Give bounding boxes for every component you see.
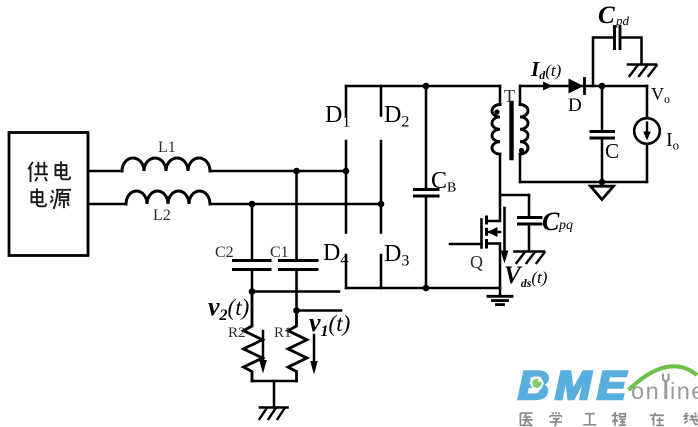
resistor R1 — [288, 311, 307, 382]
logo hexagon nut — [530, 377, 543, 389]
char 供 — [28, 162, 48, 182]
logo char 在 — [650, 413, 664, 426]
transformer secondary lead bottom — [519, 155, 522, 183]
node A dot — [249, 288, 256, 295]
svg-text:L2: L2 — [153, 207, 171, 224]
transformer secondary winding — [520, 105, 528, 155]
logo BME — [518, 362, 632, 407]
wire box to L1 — [88, 170, 122, 173]
char 电 (row2) — [31, 188, 46, 206]
inductor L1 — [122, 158, 210, 171]
Vds arrow — [501, 208, 509, 264]
node A wire — [252, 290, 339, 293]
chassis ground R — [260, 408, 288, 420]
label L1 — [158, 139, 176, 156]
node dot wire2/leg — [378, 201, 385, 208]
svg-text:Q: Q — [470, 252, 483, 272]
logo char 医 — [520, 413, 532, 425]
svg-text:C: C — [605, 139, 619, 163]
label Q — [470, 252, 483, 272]
label D2 — [384, 102, 409, 131]
mosfet drain node branch — [500, 194, 529, 197]
output bottom wire — [520, 181, 647, 184]
label Io — [666, 129, 679, 153]
node dot wire1/leg — [343, 168, 350, 175]
node dot diode output — [599, 83, 606, 90]
svg-text:ine: ine — [670, 378, 698, 404]
capacitor C2 plates — [234, 261, 271, 270]
svg-text:pq: pq — [558, 218, 573, 233]
svg-text:L1: L1 — [158, 139, 176, 156]
chassis ground Cpd — [628, 65, 657, 77]
label D — [568, 95, 582, 116]
label v1(t) — [309, 308, 350, 340]
capacitor Cpd plates — [615, 27, 621, 49]
mosfet body arrow — [487, 227, 501, 237]
capacitor CB branch — [425, 86, 428, 288]
capacitor Cpq branch — [528, 195, 531, 251]
bridge right leg (D2/D3 branch) — [380, 86, 383, 288]
earth ground under mosfet — [488, 288, 512, 305]
svg-text:C2: C2 — [215, 244, 234, 261]
svg-text:T: T — [504, 86, 515, 106]
label CB — [431, 168, 456, 196]
node B wire — [297, 309, 342, 312]
capacitor CB plates — [415, 190, 439, 197]
transformer core — [509, 103, 513, 158]
ground stub R — [273, 381, 276, 408]
node dot wire2/C2 — [249, 201, 256, 208]
svg-text:Id(t): Id(t) — [530, 57, 562, 82]
label v2(t) — [208, 292, 249, 324]
logo swoosh — [629, 366, 698, 390]
label C1 — [270, 244, 289, 261]
node dot CB top — [423, 83, 430, 90]
bridge left leg (D1/D4 branch) — [345, 86, 348, 288]
logo online text — [631, 378, 698, 404]
logo char 学 — [550, 412, 562, 426]
resistor R2 — [244, 292, 263, 382]
label T — [504, 86, 515, 106]
logo char 线 — [684, 413, 698, 425]
bridge top rail — [346, 85, 500, 88]
capacitor C1 branch — [295, 171, 298, 311]
current source Io circle — [634, 118, 660, 144]
chassis ground Cpq — [515, 252, 545, 264]
output top wire — [520, 85, 647, 88]
node B dot — [293, 307, 300, 314]
label R2 — [228, 325, 246, 341]
transformer primary polarity dot — [494, 109, 499, 114]
mosfet source lead — [487, 244, 501, 289]
logo wrench (l) — [663, 374, 669, 400]
node dot output ground — [599, 179, 605, 185]
capacitor C1 plates — [280, 261, 318, 270]
label Id(t) — [530, 57, 562, 82]
transformer primary lead top — [499, 86, 502, 105]
svg-text:CB: CB — [431, 168, 456, 196]
svg-text:R2: R2 — [228, 325, 246, 341]
label Vds(t) — [504, 262, 548, 290]
svg-text:D: D — [568, 95, 582, 116]
label R1 — [274, 325, 292, 341]
label L2 — [153, 207, 171, 224]
label D3 — [384, 241, 409, 270]
mosfet gate bar — [480, 220, 483, 248]
v1 arrow — [310, 335, 318, 375]
svg-text:Vo: Vo — [651, 84, 670, 106]
node dot CB bottom — [423, 285, 430, 292]
transformer primary winding — [492, 105, 500, 155]
wire L2 to bridge — [210, 203, 381, 206]
svg-text:pd: pd — [615, 13, 630, 28]
svg-text:D3: D3 — [384, 241, 409, 270]
svg-text:on: on — [631, 378, 660, 404]
svg-text:C: C — [542, 207, 560, 236]
transformer secondary lead top — [519, 86, 522, 105]
node dot wire1/C1 — [293, 168, 300, 175]
inductor L2 — [126, 191, 210, 204]
label D4 — [323, 240, 348, 269]
svg-text:D4: D4 — [323, 240, 348, 269]
resistor bottom wire — [252, 380, 297, 383]
svg-text:C1: C1 — [270, 244, 289, 261]
label C2 — [215, 244, 234, 261]
v2 arrow — [259, 331, 267, 374]
ground triangle output — [591, 186, 614, 199]
mosfet drain line — [487, 155, 501, 222]
current source Io arrow — [643, 123, 651, 141]
diode D — [569, 79, 585, 94]
svg-text:Vds(t): Vds(t) — [504, 262, 548, 290]
svg-text:C: C — [598, 2, 615, 29]
wire L1 to bridge — [210, 170, 346, 173]
label C — [605, 139, 619, 163]
wire box to L2 — [88, 203, 126, 206]
capacitor C plates — [591, 132, 614, 139]
Id current arrow — [543, 82, 553, 91]
svg-text:Io: Io — [666, 129, 679, 153]
capacitor C2 branch — [251, 204, 254, 292]
char 源 — [50, 190, 71, 209]
svg-text:R1: R1 — [274, 325, 292, 341]
capacitor Cpd branch — [593, 38, 642, 87]
logo char 程 — [612, 412, 627, 425]
supply box 供电电源 — [9, 133, 88, 256]
mosfet channel — [485, 216, 488, 249]
bridge bottom rail — [346, 287, 500, 290]
transformer secondary polarity dot — [519, 148, 524, 153]
char 电 (row1) — [55, 161, 70, 179]
label Vo — [651, 84, 670, 106]
capacitor C branch — [601, 86, 604, 182]
svg-text:D2: D2 — [384, 102, 409, 131]
capacitor Cpq plates — [519, 218, 542, 225]
label Cpq — [542, 207, 573, 236]
svg-text:v2(t): v2(t) — [208, 292, 249, 324]
label Cpd — [598, 2, 630, 29]
logo char 工 — [583, 414, 596, 425]
current source Io branch — [646, 86, 649, 182]
label D1 — [325, 102, 350, 131]
mosfet gate lead — [450, 243, 482, 246]
